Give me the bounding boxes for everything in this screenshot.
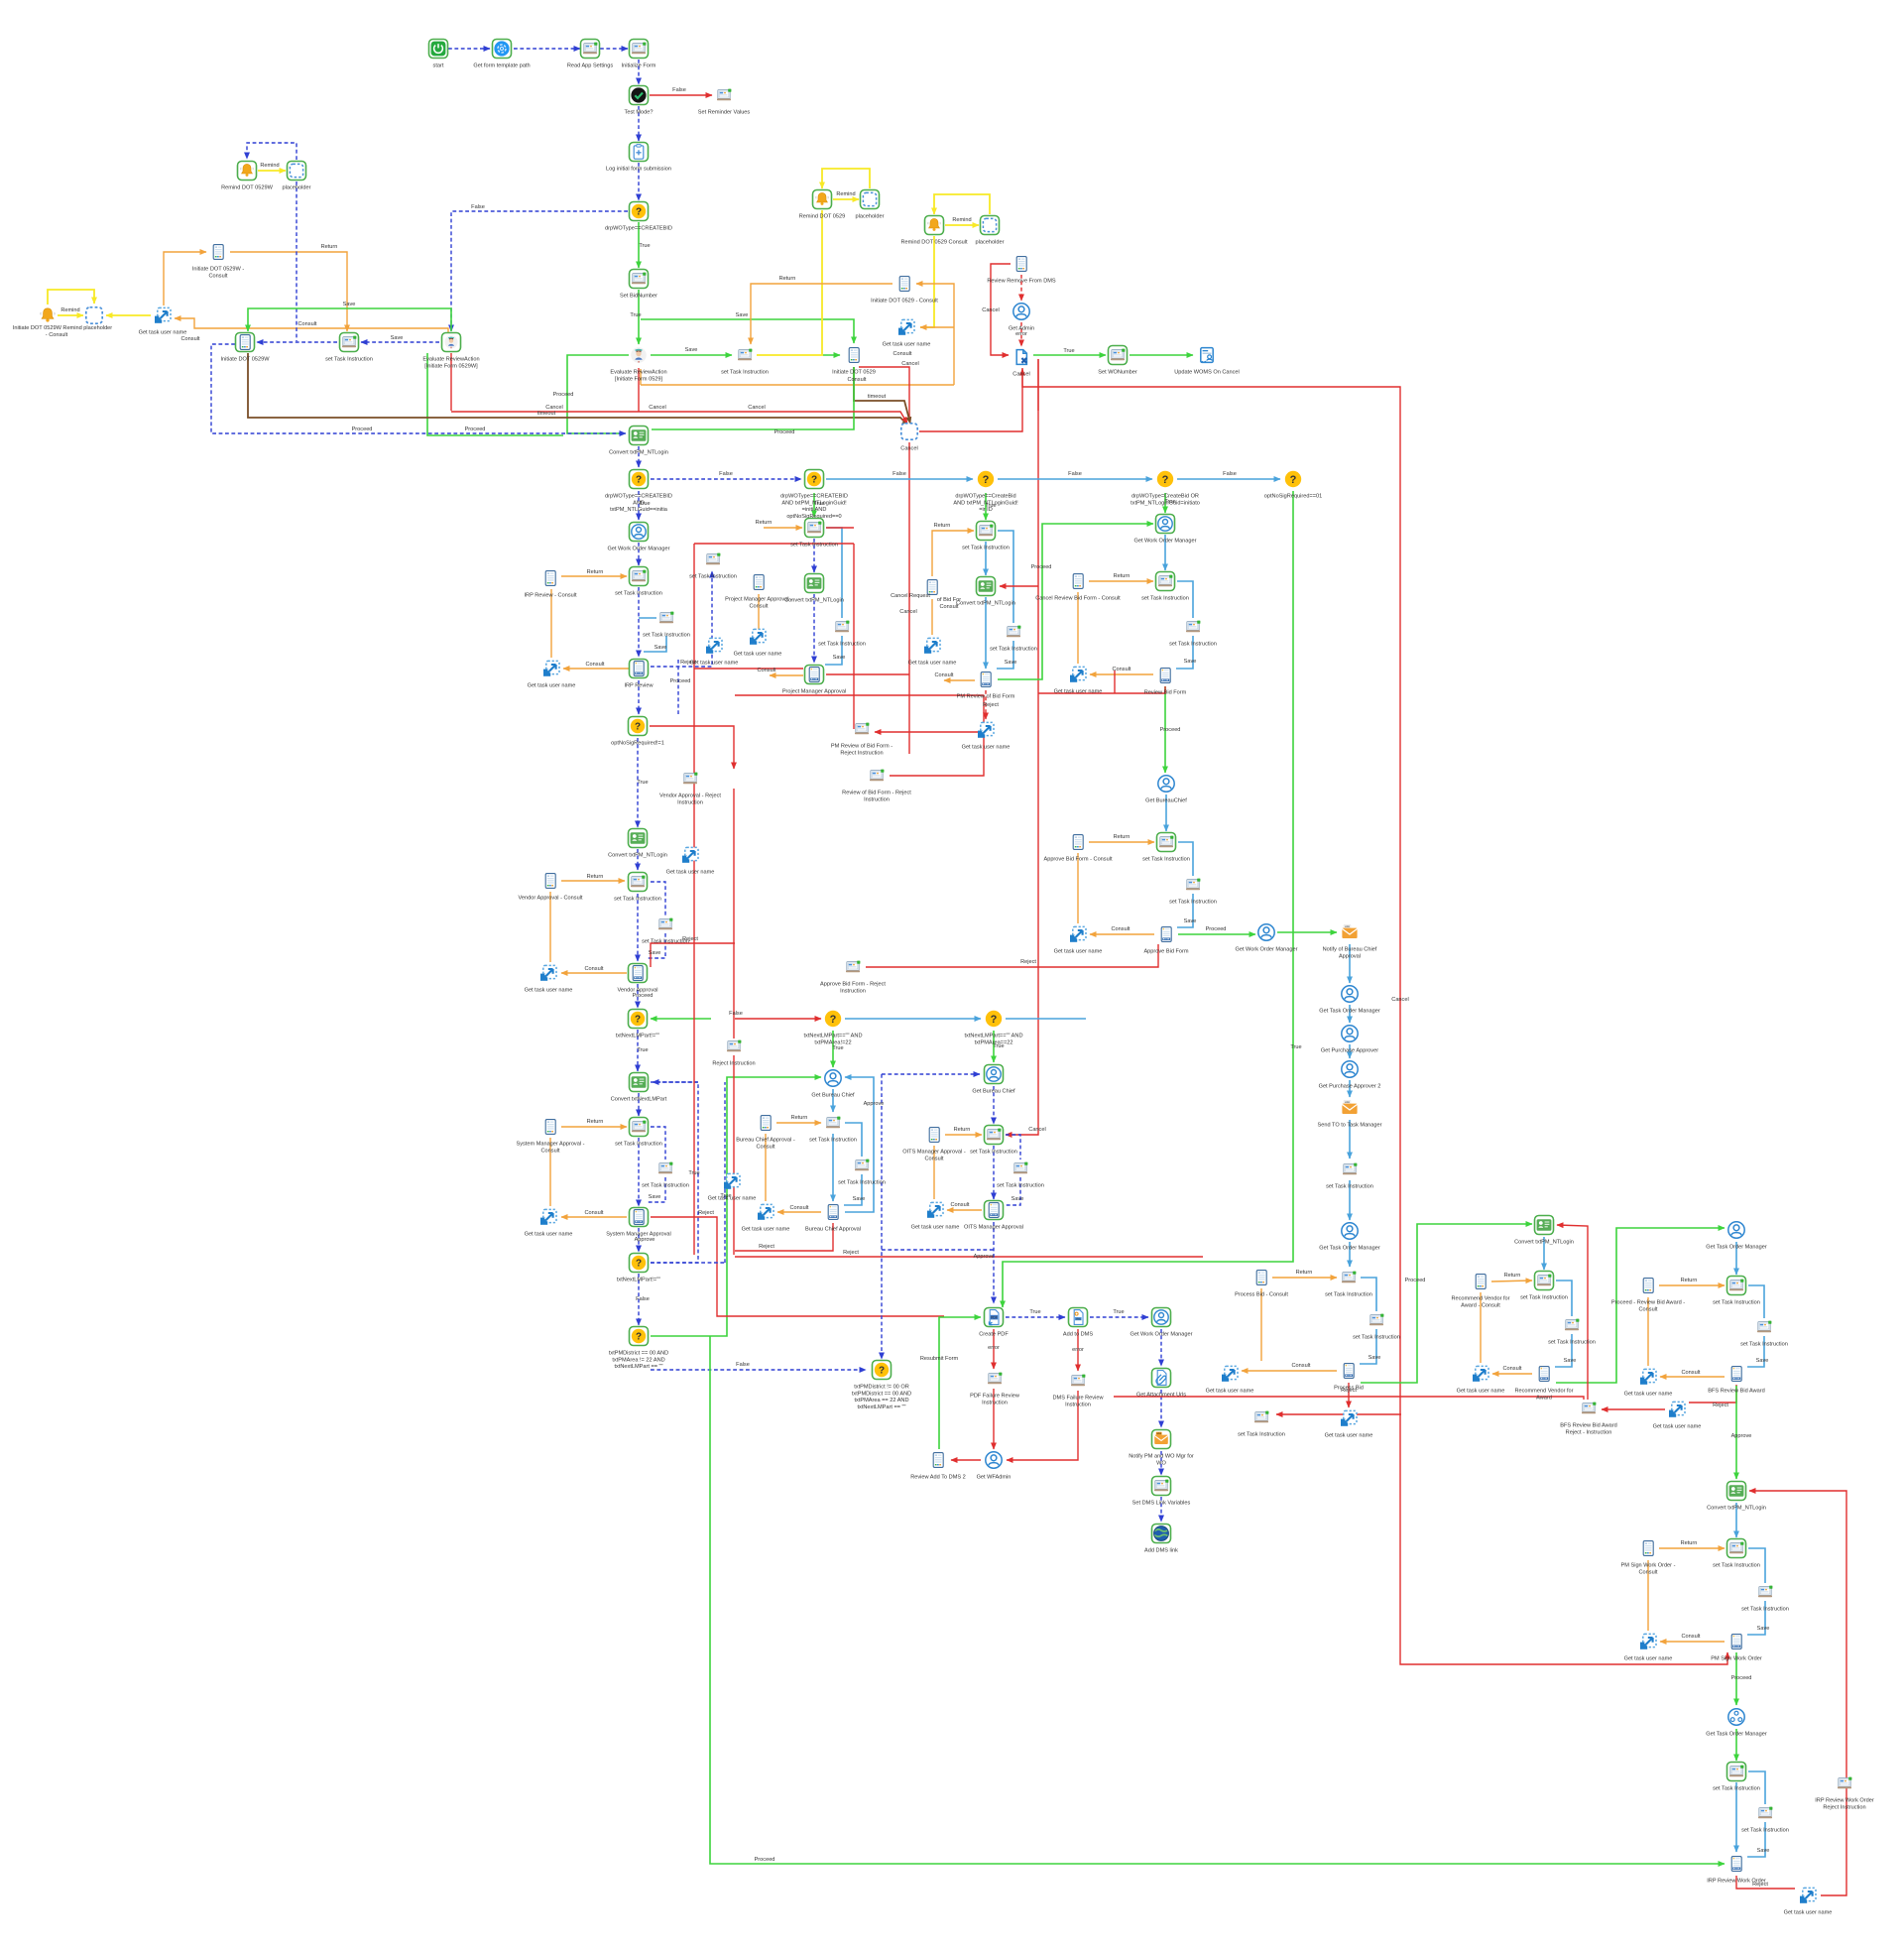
node d6	[825, 1011, 841, 1027]
wire	[651, 1077, 821, 1336]
svg-text:txtNextLMPart!="": txtNextLMPart!=""	[617, 1278, 660, 1283]
svg-text:BFS Review Bid Award: BFS Review Bid Award	[1560, 1423, 1616, 1429]
wire	[638, 106, 640, 141]
svg-text:OITS Manager Approval -: OITS Manager Approval -	[902, 1150, 966, 1156]
wire	[993, 1329, 995, 1369]
svg-text:set Task Instruction: set Task Instruction	[615, 1142, 662, 1148]
node revbf	[1160, 669, 1170, 683]
wire	[651, 882, 665, 915]
node notbca	[1342, 924, 1357, 938]
svg-text:Instruction: Instruction	[840, 988, 866, 994]
node revrem	[1016, 257, 1026, 272]
svg-text:Proceed: Proceed	[352, 427, 373, 432]
wire	[991, 264, 1011, 355]
node initform	[630, 40, 649, 59]
node ph529c	[981, 216, 1000, 235]
wire	[1735, 1729, 1737, 1761]
wire	[823, 354, 840, 356]
svg-text:Remind: Remind	[60, 307, 79, 313]
wire	[640, 369, 642, 385]
wire	[651, 1082, 698, 1263]
svg-text:Get Attachment Urls: Get Attachment Urls	[1136, 1393, 1186, 1399]
wire	[1349, 1044, 1351, 1058]
node sti_pmb	[835, 621, 849, 633]
node abfc	[1073, 835, 1083, 850]
svg-text:IRP Review: IRP Review	[624, 683, 654, 689]
svg-text:Get Task Order Manager: Get Task Order Manager	[1319, 1246, 1380, 1252]
node crbfc	[1073, 574, 1083, 589]
svg-text:Get Work Order Manager: Get Work Order Manager	[607, 547, 669, 552]
node setbid	[630, 270, 649, 289]
node sti_sm	[630, 1118, 649, 1137]
svg-text:Consult: Consult	[1682, 1634, 1701, 1640]
svg-text:Project Manager Approval: Project Manager Approval	[782, 689, 846, 695]
svg-text:Log initial form submission: Log initial form submission	[606, 167, 671, 173]
node radms2	[933, 1453, 943, 1468]
svg-text:Convert txtPM_NTLogin: Convert txtPM_NTLogin	[608, 853, 667, 859]
svg-text:set Task Instruction: set Task Instruction	[614, 897, 661, 903]
svg-text:?: ?	[830, 1014, 837, 1026]
node bfs	[1731, 1367, 1741, 1382]
svg-text:set Task Instruction: set Task Instruction	[1548, 1340, 1596, 1346]
svg-text:Cancel: Cancel	[900, 446, 917, 452]
svg-text:Save: Save	[736, 312, 749, 318]
svg-text:Instruction: Instruction	[864, 796, 890, 802]
wire	[751, 284, 892, 344]
wire	[770, 674, 803, 676]
wire	[1491, 1281, 1532, 1282]
svg-text:Review Remove From DMS: Review Remove From DMS	[987, 279, 1056, 285]
wire	[939, 1317, 981, 1449]
svg-text:Save: Save	[649, 1194, 661, 1200]
svg-text:txtPMArea == 22 AND: txtPMArea == 22 AND	[854, 1398, 908, 1404]
svg-text:Consult: Consult	[585, 966, 604, 972]
svg-text:Remind DOT 0529: Remind DOT 0529	[799, 214, 846, 220]
wire	[427, 353, 563, 435]
wire	[211, 344, 626, 433]
svg-text:Add DMS link: Add DMS link	[1144, 1548, 1178, 1554]
svg-text:IRP Review - Consult: IRP Review - Consult	[524, 593, 577, 599]
svg-text:Get task user name: Get task user name	[708, 1196, 757, 1202]
node sti_pmsw	[1727, 1539, 1746, 1558]
wire	[1749, 1491, 1846, 1895]
node cancelph	[901, 424, 917, 439]
wire	[1349, 944, 1351, 983]
svg-text:txtPMDistrict != 00 OR: txtPMDistrict != 00 OR	[854, 1385, 908, 1391]
svg-text:Cancel: Cancel	[982, 307, 999, 313]
svg-text:False: False	[1223, 471, 1237, 477]
svg-text:Reject: Reject	[698, 1210, 714, 1216]
svg-text:DMS Failure Review: DMS Failure Review	[1053, 1396, 1105, 1402]
wire	[549, 1138, 551, 1206]
wire	[985, 690, 987, 719]
svg-text:Return: Return	[791, 1115, 808, 1121]
svg-text:Update WOMS On Cancel: Update WOMS On Cancel	[1174, 370, 1240, 376]
wire	[854, 367, 910, 424]
wire	[934, 194, 990, 214]
svg-text:set Task Instruction: set Task Instruction	[689, 574, 737, 580]
wire	[451, 211, 628, 331]
node sti_rbf	[1156, 572, 1175, 591]
svg-text:Review Bid Form: Review Bid Form	[1144, 690, 1187, 696]
node gtun_irp	[543, 661, 559, 675]
wire	[1480, 1292, 1482, 1363]
node sti_cr2	[1007, 626, 1020, 638]
svg-text:Cancel: Cancel	[899, 609, 916, 615]
wire	[933, 1146, 935, 1199]
wire	[1659, 1284, 1725, 1286]
wire	[1090, 933, 1154, 935]
node abf	[1161, 927, 1171, 942]
svg-text:drpWOType==CREATEBID: drpWOType==CREATEBID	[605, 226, 672, 232]
wire	[813, 493, 815, 517]
svg-text:Return: Return	[587, 874, 604, 880]
svg-text:Approval: Approval	[1339, 953, 1361, 959]
node sti_rva2	[1565, 1319, 1579, 1331]
node evalraW	[442, 333, 461, 352]
svg-text:Approve: Approve	[635, 1237, 655, 1243]
svg-text:Get Work Order Manager: Get Work Order Manager	[1130, 1332, 1192, 1338]
svg-text:txtNextLMPart == "": txtNextLMPart == ""	[857, 1404, 905, 1410]
svg-text:Return: Return	[954, 1127, 971, 1133]
svg-text:?: ?	[983, 474, 990, 486]
svg-text:Consult: Consult	[585, 1210, 604, 1216]
wire	[651, 571, 712, 667]
node sti_irp	[630, 567, 649, 586]
wire	[1164, 535, 1166, 570]
node sti_cr1	[977, 522, 996, 541]
node d5	[629, 1010, 648, 1029]
wire	[916, 284, 954, 385]
node d4	[629, 717, 648, 736]
svg-text:Return: Return	[587, 1119, 604, 1125]
node rvac	[1476, 1275, 1486, 1289]
node convert3	[630, 1073, 649, 1092]
svg-text:Save: Save	[1011, 1196, 1024, 1202]
wire	[1349, 1180, 1351, 1220]
svg-text:?: ?	[635, 721, 641, 732]
wire	[638, 543, 640, 565]
svg-text:PM Review of Bid Form -: PM Review of Bid Form -	[831, 744, 892, 750]
svg-text:True: True	[1113, 1309, 1124, 1315]
svg-text:txtNextLMPart=="" AND: txtNextLMPart=="" AND	[804, 1034, 863, 1039]
svg-text:Get task user name: Get task user name	[525, 988, 573, 994]
wire	[638, 60, 640, 84]
node readapp	[581, 40, 600, 59]
node gtun_rbf	[1070, 667, 1086, 681]
wire	[1077, 592, 1079, 664]
svg-text:Proceed: Proceed	[633, 993, 654, 999]
wire	[985, 542, 987, 575]
wire	[1037, 359, 1039, 411]
svg-text:Cancel: Cancel	[1391, 997, 1408, 1003]
svg-text:Reject: Reject	[680, 660, 696, 666]
wire	[638, 1274, 640, 1325]
wire	[651, 943, 735, 967]
svg-text:timeout: timeout	[868, 394, 887, 400]
wire	[1349, 1242, 1351, 1267]
svg-text:Vendor Approval - Reject: Vendor Approval - Reject	[659, 793, 721, 799]
svg-text:Get task user name: Get task user name	[734, 652, 782, 658]
wire	[919, 369, 1022, 431]
svg-text:?: ?	[635, 1014, 641, 1025]
wire	[1260, 1288, 1262, 1361]
node irprev	[630, 660, 649, 678]
svg-text:Send TO to Task Manager: Send TO to Task Manager	[1318, 1123, 1382, 1129]
node phW	[288, 162, 306, 181]
svg-text:Get Purchase Approver: Get Purchase Approver	[1321, 1048, 1378, 1054]
svg-text:Reject Instruction: Reject Instruction	[1823, 1804, 1865, 1810]
node recv	[1539, 1367, 1549, 1382]
svg-text:Get Bureau Chief: Get Bureau Chief	[972, 1089, 1015, 1095]
wire	[1748, 1285, 1764, 1318]
svg-text:Proceed: Proceed	[755, 1857, 775, 1863]
node prbac	[1643, 1279, 1653, 1293]
wire	[1735, 1242, 1737, 1275]
svg-text:?: ?	[811, 474, 817, 485]
svg-text:Cancel: Cancel	[545, 405, 562, 411]
svg-text:True: True	[720, 1193, 731, 1199]
wire	[998, 478, 1152, 480]
svg-text:Consult: Consult	[541, 1148, 560, 1154]
svg-text:False: False	[471, 204, 485, 210]
svg-text:Proceed: Proceed	[1031, 564, 1052, 570]
svg-text:set Task Instruction: set Task Instruction	[1741, 1607, 1789, 1613]
svg-text:Set Reminder Values: Set Reminder Values	[698, 110, 751, 116]
node pdff	[988, 1373, 1002, 1385]
wire	[735, 1256, 1203, 1258]
svg-text:Get task user name: Get task user name	[1457, 1389, 1505, 1395]
wire	[1020, 322, 1022, 346]
svg-text:set Task Instruction: set Task Instruction	[990, 647, 1037, 653]
node ido529	[849, 348, 859, 363]
node remind529c	[925, 216, 944, 235]
svg-text:Cancel: Cancel	[649, 405, 665, 411]
wire	[175, 318, 448, 333]
svg-text:Get Bureau Chief: Get Bureau Chief	[811, 1093, 855, 1099]
svg-text:Consult: Consult	[951, 1202, 970, 1208]
node sti_bfs	[1727, 1277, 1746, 1295]
wire	[561, 1126, 627, 1128]
wire	[230, 252, 347, 331]
wire	[1177, 478, 1280, 480]
wire	[638, 446, 640, 467]
svg-text:Consult: Consult	[1292, 1363, 1311, 1369]
svg-text:True: True	[1063, 348, 1074, 354]
wire	[813, 539, 815, 572]
wire	[1177, 894, 1193, 927]
wire	[908, 442, 910, 754]
node bcac	[761, 1116, 771, 1131]
svg-text:Project Manager Approval -: Project Manager Approval -	[725, 597, 792, 603]
wire	[1360, 1329, 1376, 1364]
svg-text:Reject: Reject	[1341, 1388, 1357, 1394]
node evalra529	[631, 347, 647, 363]
wire	[813, 594, 815, 663]
svg-text:Save: Save	[1368, 1355, 1381, 1361]
svg-text:start: start	[433, 63, 444, 69]
wire	[1006, 1135, 1020, 1160]
wire	[1006, 1018, 1086, 1020]
wire	[1006, 359, 1038, 1135]
node smac	[545, 1120, 555, 1135]
svg-text:False: False	[736, 1362, 750, 1368]
svg-text:Review Add To DMS 2: Review Add To DMS 2	[910, 1475, 966, 1481]
svg-text:OITS Manager Approval: OITS Manager Approval	[964, 1225, 1023, 1231]
wire	[1660, 1641, 1725, 1643]
svg-text:?: ?	[879, 1365, 885, 1376]
svg-text:of Bid For: of Bid For	[937, 597, 961, 603]
svg-text:Get task user name: Get task user name	[139, 330, 187, 336]
wire	[764, 527, 802, 529]
svg-text:False: False	[672, 87, 686, 93]
svg-text:True: True	[688, 1170, 699, 1176]
node abf_rej	[846, 961, 860, 973]
svg-text:True: True	[813, 501, 824, 507]
node gtun_pm2	[750, 629, 766, 644]
wire	[1689, 1385, 1736, 1403]
wire	[776, 1122, 821, 1124]
svg-text:Initialize Form: Initialize Form	[622, 63, 656, 69]
svg-text:Get task user name: Get task user name	[690, 661, 739, 667]
svg-text:Proceed: Proceed	[774, 429, 795, 435]
svg-text:Get Task Order Manager: Get Task Order Manager	[1706, 1732, 1767, 1738]
wire	[58, 314, 83, 316]
wire	[296, 182, 297, 341]
svg-text:Save: Save	[685, 347, 698, 353]
wire	[1543, 1237, 1545, 1270]
svg-text:Get form template path: Get form template path	[473, 63, 530, 69]
svg-text:Save: Save	[1757, 1626, 1770, 1632]
wire	[677, 660, 679, 716]
svg-text:Return: Return	[321, 244, 338, 250]
node irpc	[545, 571, 555, 586]
wire	[826, 673, 909, 675]
svg-text:False: False	[636, 1296, 650, 1302]
svg-text:drpWOType==CreateBid: drpWOType==CreateBid	[955, 494, 1015, 500]
wire	[859, 367, 909, 421]
wire	[638, 587, 640, 657]
wire	[735, 1223, 833, 1251]
wire	[1602, 1408, 1665, 1410]
node d3	[805, 470, 824, 489]
wire	[1038, 686, 1165, 693]
node gwom1	[630, 523, 649, 542]
svg-text:PDF Failure Review: PDF Failure Review	[970, 1394, 1020, 1400]
node sti_bc	[826, 1117, 840, 1129]
node gtun_rva	[1473, 1366, 1488, 1381]
svg-text:Get task user name: Get task user name	[666, 870, 715, 876]
svg-text:Proceed: Proceed	[1206, 926, 1227, 932]
wire	[998, 524, 1153, 679]
node gtun_mid	[724, 1173, 740, 1188]
svg-text:Consult: Consult	[750, 603, 769, 609]
node adddmsl	[1152, 1525, 1171, 1543]
svg-text:optNoSigRequired!=1: optNoSigRequired!=1	[611, 741, 664, 747]
wire	[826, 527, 854, 529]
svg-text:set Task Instruction: set Task Instruction	[962, 546, 1010, 551]
wire	[651, 1018, 711, 1020]
svg-text:?: ?	[636, 1258, 642, 1269]
node irpwo	[1731, 1857, 1741, 1872]
svg-text:Get task user name: Get task user name	[1624, 1392, 1673, 1398]
wire	[993, 1389, 995, 1449]
svg-text:txtPMDistrict == 00 AND: txtPMDistrict == 00 AND	[852, 1391, 911, 1397]
svg-text:set Task Instruction: set Task Instruction	[1713, 1563, 1760, 1569]
wire	[710, 1336, 1725, 1864]
wire	[1077, 1329, 1079, 1371]
wire	[993, 1086, 995, 1124]
wire	[735, 1018, 821, 1020]
svg-text:Approve: Approve	[1731, 1433, 1752, 1439]
wire	[638, 680, 640, 714]
svg-text:Return: Return	[1681, 1540, 1698, 1546]
wire	[826, 478, 973, 480]
wire	[985, 493, 987, 520]
svg-text:Save: Save	[649, 950, 661, 956]
wire	[1557, 1225, 1588, 1400]
node getadmin	[1013, 304, 1029, 319]
wire	[638, 368, 640, 412]
svg-text:Reject - Instruction: Reject - Instruction	[1566, 1429, 1612, 1435]
wire	[993, 1222, 995, 1303]
svg-text:IRP Review Work Order: IRP Review Work Order	[1815, 1798, 1874, 1804]
svg-text:System Manager Approval -: System Manager Approval -	[516, 1142, 584, 1148]
svg-text:set Task Instruction: set Task Instruction	[1740, 1342, 1788, 1348]
node dopt01	[1285, 471, 1301, 487]
node gtun_bfs	[1640, 1369, 1656, 1384]
wire	[875, 731, 984, 733]
node gtun_pmr	[978, 722, 994, 737]
wire	[514, 48, 580, 50]
svg-text:PM Review of Bid Form: PM Review of Bid Form	[957, 694, 1015, 700]
svg-text:set Task Instruction: set Task Instruction	[790, 543, 838, 549]
svg-text:Approve Bid Form: Approve Bid Form	[1143, 949, 1188, 955]
svg-text:Get Work Order Manager: Get Work Order Manager	[1133, 539, 1196, 545]
wire	[694, 543, 854, 545]
node gbc1	[825, 1070, 841, 1086]
svg-text:Evaluate ReviewAction: Evaluate ReviewAction	[610, 370, 666, 376]
node sti_va2	[658, 918, 672, 930]
wire	[637, 1030, 639, 1071]
node sti_abf2	[1186, 879, 1200, 891]
node gwfa	[986, 1452, 1002, 1468]
wire	[563, 668, 629, 670]
wire	[561, 1216, 627, 1218]
svg-text:Proceed: Proceed	[1731, 1675, 1752, 1681]
node gpa2	[1342, 1061, 1358, 1077]
node rbf_rej	[870, 770, 884, 782]
wire	[1276, 1413, 1401, 1415]
wire	[1555, 1334, 1572, 1367]
node stiW	[340, 333, 359, 352]
wire	[693, 544, 695, 1255]
node sti_irpwo2	[1758, 1807, 1772, 1819]
wire	[832, 1089, 834, 1112]
node convert1	[630, 427, 649, 445]
wire	[651, 1127, 665, 1160]
node setwonum	[1109, 346, 1128, 365]
wire	[600, 48, 628, 50]
node gtun_pm1	[706, 638, 722, 653]
wire	[651, 478, 801, 480]
svg-text:Reject: Reject	[983, 702, 999, 708]
svg-text:Set WONumber: Set WONumber	[1098, 370, 1137, 376]
wire	[1020, 275, 1022, 301]
svg-text:PDF: PDF	[991, 1316, 998, 1320]
node dmsf	[1071, 1375, 1085, 1387]
node ph529	[861, 190, 880, 209]
